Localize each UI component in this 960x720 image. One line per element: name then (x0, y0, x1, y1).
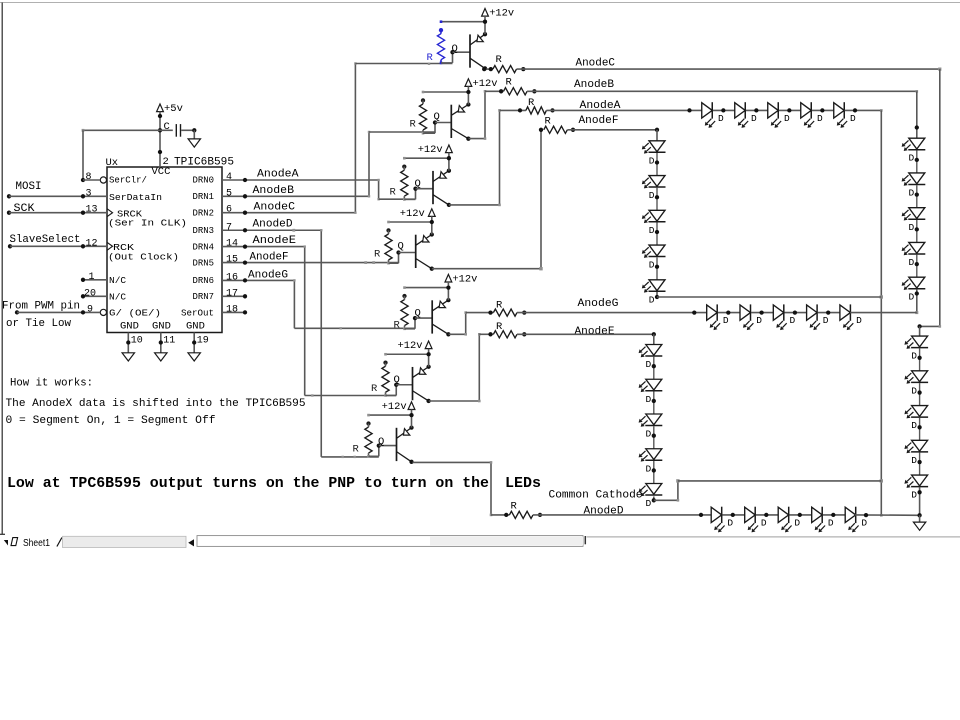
wire AnodeC net vertical riser (354, 62, 356, 214)
scrollbar left arrow (188, 539, 194, 546)
svg-text:AnodeB: AnodeB (574, 79, 614, 91)
IC U1 pin label SerOut (181, 308, 214, 319)
LED DD4 (812, 507, 834, 533)
pin number 20 (84, 288, 96, 299)
wire GND pin 11 stub (159, 333, 163, 353)
svg-text:D: D (646, 463, 652, 474)
wire between DG4 and DG5 (818, 310, 840, 314)
svg-text:Ux: Ux (106, 157, 119, 169)
svg-text:0 = Segment On, 1 = Segment Of: 0 = Segment On, 1 = Segment Off (6, 415, 216, 427)
svg-text:AnodeF: AnodeF (250, 252, 289, 264)
svg-text:AnodeA: AnodeA (257, 169, 299, 181)
LED DC3 (904, 406, 928, 432)
LED DF3 (642, 210, 666, 236)
svg-text:D: D (790, 315, 796, 326)
ground (pin 10) (122, 353, 134, 361)
wire N/C pin 1 stub (81, 278, 107, 282)
label AnodeB (net at pin 5) (253, 185, 295, 197)
wire VCC rail to SerClr pin 8 (81, 129, 160, 182)
svg-text:18: 18 (226, 304, 238, 315)
wire base feed jog (Q1) (441, 50, 470, 63)
svg-text:AnodeF: AnodeF (579, 115, 619, 127)
svg-text:DRN6: DRN6 (193, 275, 215, 286)
svg-text:D: D (911, 490, 917, 501)
svg-text:D: D (909, 187, 915, 198)
IC U1 pin label DRN2 (193, 208, 215, 219)
wire DRN0 pin 4 (AnodeA net) (222, 178, 379, 182)
svg-text:AnodeE: AnodeE (575, 326, 615, 338)
node collector (Q6) (426, 399, 430, 403)
IC U1 part value TPIC6B595 (174, 157, 234, 169)
wire AnodeC column bottom to ground node (917, 487, 921, 515)
LED DG5 (840, 304, 862, 330)
svg-text:AnodeE: AnodeE (253, 235, 297, 247)
wire base feed jog (Q7) (369, 443, 397, 456)
LED DE3 (639, 414, 663, 440)
LED DC4 (904, 440, 928, 466)
resistor R (AnodeG segment) (466, 300, 527, 317)
pin number 13 (86, 205, 98, 216)
svg-text:R: R (353, 444, 360, 456)
wire between DD1 and DD2 (722, 513, 744, 517)
wire between DB4 and DB5 (915, 255, 919, 278)
svg-text:D: D (649, 260, 655, 271)
label AnodeG (net at pin 16) (248, 270, 288, 282)
LED DB1 (902, 138, 926, 164)
wire AnodeA row to LED string (546, 108, 701, 112)
svg-text:D: D (911, 385, 917, 396)
svg-text:20: 20 (84, 288, 96, 299)
wire capacitor to ground (181, 128, 196, 138)
resistor R (base of Q2, AnodeB driver) (410, 98, 427, 133)
wire AnodeF row to LED column (567, 128, 659, 132)
svg-text:Q: Q (434, 111, 440, 123)
wire AnodeD string to ground node (855, 513, 922, 518)
label AnodeA (segment row) (580, 100, 621, 112)
LED DD1 (711, 507, 733, 533)
transistor Q5 PNP (AnodeG driver) (415, 300, 449, 334)
wire +12v stub (Q6) (428, 349, 430, 355)
node collector (Q5) (446, 332, 450, 336)
svg-text:+12v: +12v (382, 401, 407, 413)
node collector (Q2) (466, 137, 470, 141)
label AnodeB (segment row) (574, 79, 614, 91)
IC U1 pin label SerDataIn (109, 192, 162, 203)
wire AnodeA string to common vertical (845, 108, 883, 112)
node AnodeC column top (917, 324, 921, 328)
wire +12v stub (Q3) (448, 153, 450, 159)
svg-text:R: R (496, 300, 503, 312)
text 0 = Segment On, 1 = Segment Off (6, 415, 216, 427)
resistor R (base of Q6, AnodeE driver) (371, 361, 389, 396)
svg-text:D: D (861, 517, 867, 528)
IC U1 inversion bubble pin 9 (100, 309, 106, 315)
wire emitter to +12v (Q1) (483, 20, 487, 37)
svg-text:GND: GND (152, 321, 171, 333)
IC U1 pin label G/ (OE/) (109, 308, 161, 319)
svg-text:AnodeC: AnodeC (576, 58, 616, 70)
IC U1 inversion bubble pin 8 (100, 177, 106, 183)
capacitor C (164, 121, 181, 137)
svg-text:D: D (646, 394, 652, 405)
LED DB4 (902, 242, 926, 268)
wire AnodeF row into column (656, 130, 658, 141)
wire AnodeB net vertical riser (368, 131, 370, 198)
wire AnodeF column bottom to common vertical (657, 296, 881, 298)
IC U1 pin label DRN6 (193, 275, 215, 286)
wire AnodeE row to LED column (517, 332, 656, 336)
svg-text:D: D (911, 455, 917, 466)
svg-text:D: D (751, 113, 757, 124)
LED DA2 (735, 102, 757, 128)
wire Q1 emitter rail (440, 20, 485, 23)
svg-text:15: 15 (226, 255, 238, 266)
wire between DE2 and DE3 (652, 391, 656, 414)
tab bar sheet flag icon (11, 538, 18, 546)
svg-text:D: D (761, 517, 767, 528)
LED DB2 (902, 173, 926, 199)
resistor R (AnodeB segment) (485, 77, 537, 95)
svg-text:12: 12 (86, 238, 98, 249)
+12v power symbol (Q5 driver) (445, 273, 477, 285)
svg-text:Q: Q (415, 308, 421, 320)
svg-text:10: 10 (131, 336, 143, 347)
wire resistor bottom terminal (Q5) (403, 328, 406, 331)
svg-text:D: D (909, 222, 915, 233)
label AnodeC (segment row) (576, 58, 616, 70)
LED DE5 (639, 484, 663, 510)
IC U1 pin label DRN1 (193, 191, 215, 202)
wire AnodeB row (527, 90, 918, 93)
wire between DF4 and DF5 (655, 257, 659, 280)
wire Q7 emitter rail (367, 414, 411, 417)
wire common cathode vertical (right) (880, 110, 883, 516)
LED DB3 (902, 208, 926, 234)
wire between DE4 and DE5 (652, 461, 656, 484)
wire Q4 emitter rail (387, 221, 432, 224)
wire AnodeC row (517, 68, 942, 71)
label AnodeF (segment row) (579, 115, 619, 127)
wire between DD2 and DD3 (756, 513, 778, 517)
svg-text:D: D (649, 225, 655, 236)
IC U1 TPIC6B595 body (107, 167, 222, 333)
svg-text:+5v: +5v (164, 103, 183, 115)
node collector (Q7) (409, 460, 413, 464)
wire Q6 collector to AnodeE row riser (429, 333, 481, 402)
svg-text:D: D (911, 351, 917, 362)
pin number 7 (226, 222, 232, 233)
label SCK (14, 203, 35, 215)
IC U1 pin label N/C (pin 1) (109, 275, 126, 286)
svg-text:MOSI: MOSI (16, 181, 42, 193)
svg-text:Q: Q (378, 436, 384, 448)
svg-text:(Out Clock): (Out Clock) (108, 252, 179, 263)
svg-text:+12v: +12v (400, 208, 425, 220)
IC U1 pin label N/C (pin 20) (109, 292, 126, 303)
wire between DC4 and DC5 (917, 453, 921, 476)
sheet top border (0, 2, 960, 4)
svg-text:3: 3 (86, 188, 92, 199)
IC U1 clock wedge pin 13 (107, 209, 113, 217)
svg-text:D: D (794, 517, 800, 528)
svg-text:R: R (511, 501, 518, 513)
transistor Q6 PNP (AnodeE driver) (394, 367, 429, 401)
svg-text:VCC: VCC (152, 166, 171, 178)
wire DRN6 pin 16 (AnodeG net) (222, 278, 294, 282)
text How it works: (10, 378, 93, 390)
scrollbar end tick (584, 536, 586, 544)
ground (LED return) (913, 522, 925, 530)
svg-text:14: 14 (226, 239, 238, 250)
LED DF2 (642, 176, 666, 202)
svg-text:4: 4 (226, 172, 232, 183)
wire between DE3 and DE4 (652, 426, 656, 449)
IC U1 pin label DRN7 (193, 291, 215, 302)
pin number 8 (86, 172, 92, 183)
pin number 19 (197, 336, 209, 347)
svg-text:13: 13 (86, 205, 98, 216)
svg-text:D: D (909, 292, 915, 303)
svg-text:D: D (727, 517, 733, 528)
svg-text:Sheet1: Sheet1 (23, 538, 50, 549)
wire PWM to G/ OE pin 9 (15, 310, 100, 314)
svg-text:AnodeB: AnodeB (253, 185, 295, 197)
wire DRN2 pin 6 (AnodeC net) (222, 211, 355, 215)
transistor Q7 PNP (AnodeD driver) (378, 428, 412, 462)
LED DF5 (642, 280, 666, 306)
ground (capacitor) (188, 139, 200, 147)
svg-text:D: D (756, 315, 762, 326)
svg-text:R: R (374, 249, 381, 261)
LED DD2 (745, 507, 767, 533)
LED DE2 (639, 379, 663, 405)
pin number 6 (226, 205, 232, 216)
label or Tie Low (6, 318, 71, 330)
wire between DD3 and DD4 (789, 513, 811, 517)
svg-text:DRN4: DRN4 (193, 242, 215, 253)
horizontal scrollbar track (197, 536, 583, 547)
wire Q7 collector to AnodeD row drop (413, 461, 493, 516)
tab strip recessed area (63, 536, 187, 547)
wire between DC2 and DC3 (917, 383, 921, 406)
wire resistor bottom terminal (Q2) (422, 132, 425, 135)
wire Q3 emitter rail (403, 157, 449, 160)
wire emitter to +12v (Q6) (426, 352, 430, 369)
LED DE4 (639, 449, 663, 475)
wire between DE1 and DE2 (652, 357, 656, 380)
IC U1 pin label RCK (113, 242, 134, 253)
LED DC1 (904, 336, 928, 362)
wire AnodeE row into column (653, 334, 655, 344)
svg-text:D: D (911, 420, 917, 431)
svg-text:R: R (496, 54, 503, 66)
resistor R (base of Q7, AnodeD driver) (353, 421, 373, 456)
IC U1 pin label (Ser In CLK) (108, 218, 187, 229)
pin number 16 (226, 272, 238, 283)
wire AnodeB column bottom to AnodeG row end (915, 289, 919, 314)
wire between DA1 and DA2 (713, 108, 735, 112)
svg-text:D: D (649, 190, 655, 201)
svg-text:5: 5 (226, 188, 232, 199)
wire emitter to +12v (Q5) (446, 285, 450, 302)
wire AnodeD net to Q7 base resistor (321, 456, 379, 458)
label Common Cathode (549, 490, 643, 502)
svg-text:6: 6 (226, 205, 232, 216)
svg-text:D: D (828, 517, 834, 528)
svg-text:G/ (OE/): G/ (OE/) (109, 308, 161, 319)
wire AnodeG string to AnodeB column bottom (850, 312, 917, 314)
wire emitter to +12v (Q7) (409, 413, 413, 430)
wire N/C pin 20 stub (81, 294, 107, 298)
LED DG3 (773, 304, 795, 330)
svg-text:GND: GND (186, 321, 205, 333)
label AnodeD (net at pin 7) (253, 219, 293, 231)
svg-text:+12v: +12v (452, 273, 477, 285)
svg-text:9: 9 (87, 304, 93, 315)
wire Q5 collector to AnodeG row riser (449, 311, 467, 335)
label AnodeF (net at pin 15) (250, 252, 289, 264)
wire between DB3 and DB4 (915, 220, 919, 243)
LED DE1 (639, 345, 663, 371)
wire AnodeB row into column (915, 91, 919, 138)
IC U1 reference designator Ux (106, 157, 119, 169)
wire SerOut pin 18 stub (222, 310, 247, 314)
+12v power symbol (Q7 driver) (382, 401, 415, 413)
wire DRN7 pin 17 stub (222, 294, 247, 298)
label AnodeD (segment row) (584, 506, 624, 518)
wire AnodeG row to LED string (517, 310, 707, 314)
svg-text:D: D (856, 315, 862, 326)
wire AnodeB net to Q2 base resistor (369, 131, 435, 133)
resistor R (base of Q1, AnodeC driver) (427, 28, 445, 64)
resistor R (AnodeD segment) (491, 501, 542, 519)
pin number 15 (226, 255, 238, 266)
svg-text:D: D (909, 257, 915, 268)
wire AnodeC into top of cathode column D4 string (920, 325, 942, 328)
+12v power symbol (Q6 driver) (398, 340, 433, 352)
svg-text:D: D (823, 315, 829, 326)
wire base feed jog (Q2) (423, 120, 451, 133)
svg-text:R: R (545, 116, 552, 128)
wire between DD4 and DD5 (823, 513, 845, 517)
wire VCC to capacitor (160, 129, 173, 131)
pin number 18 (226, 304, 238, 315)
svg-text:DRN7: DRN7 (193, 291, 215, 302)
svg-text:D: D (646, 429, 652, 440)
IC U1 VCC pin label (152, 166, 171, 178)
svg-text:SlaveSelect: SlaveSelect (10, 234, 81, 246)
wire SCK to SRCK pin 13 (9, 211, 107, 215)
LED DG4 (807, 304, 829, 330)
LED DC5 (904, 475, 928, 501)
svg-text:C: C (164, 121, 170, 133)
wire AnodeA net to Q3 base resistor (379, 198, 416, 200)
wire SlaveSelect to RCK pin 12 (10, 244, 107, 248)
wire AnodeG net vertical drop (293, 279, 295, 328)
IC U1 clock wedge pin 12 (107, 242, 113, 250)
pin number 9 (87, 304, 93, 315)
pin number 4 (226, 172, 232, 183)
LED DA4 (801, 102, 823, 128)
svg-text:8: 8 (86, 172, 92, 183)
LED DC2 (904, 371, 928, 397)
wire GND pin 10 stub (126, 333, 130, 353)
svg-text:R: R (410, 119, 417, 131)
resistor R (base of Q5, AnodeG driver) (394, 294, 409, 332)
wire between DG2 and DG3 (751, 310, 773, 314)
label AnodeG (segment row) (578, 298, 619, 310)
IC U1 pin label DRN5 (193, 258, 215, 269)
text The AnodeX data is shifted into the TPIC6B595 (6, 398, 306, 410)
wire AnodeE column bottom to common cathode rail (654, 479, 680, 501)
svg-text:R: R (371, 383, 378, 395)
wire resistor bottom terminal (Q7) (367, 455, 370, 458)
wire AnodeE column bottom (652, 497, 656, 503)
svg-text:SerOut: SerOut (181, 308, 214, 319)
svg-text:AnodeG: AnodeG (248, 270, 288, 282)
svg-text:1: 1 (89, 272, 95, 283)
svg-text:AnodeC: AnodeC (254, 202, 296, 214)
wire base feed jog (Q5) (405, 316, 433, 329)
svg-text:Q: Q (394, 374, 400, 386)
svg-text:D: D (646, 359, 652, 370)
wire Q2 collector to AnodeB row riser (469, 90, 487, 140)
svg-text:or Tie Low: or Tie Low (6, 318, 71, 330)
wire ground stub (common) (919, 515, 921, 522)
wire DRN3 pin 7 (AnodeD net) (222, 228, 321, 232)
label AnodeE (net at pin 14) (253, 235, 297, 247)
svg-text:Q: Q (398, 241, 404, 253)
svg-text:LEDs: LEDs (505, 476, 541, 492)
text LEDs (505, 476, 541, 492)
pin number 5 (226, 188, 232, 199)
wire AnodeG net to Q5 base resistor (294, 327, 415, 329)
transistor Q4 PNP (AnodeF driver) (398, 235, 432, 269)
label AnodeE (segment row) (575, 326, 615, 338)
node collector (Q4) (430, 267, 434, 271)
wire +12v stub (Q4) (431, 216, 433, 222)
resistor R (AnodeC segment, in collector line of Q1) (482, 54, 525, 73)
pin number 12 (86, 238, 98, 249)
node VCC junction (158, 128, 162, 132)
svg-text:AnodeG: AnodeG (578, 298, 619, 310)
label MOSI (16, 181, 42, 193)
svg-text:N/C: N/C (109, 275, 126, 286)
wire between DF2 and DF3 (655, 188, 659, 211)
wire Q3 collector to AnodeA row riser (449, 109, 501, 206)
wire AnodeE net vertical drop (304, 245, 306, 395)
LED DD5 (845, 507, 867, 533)
wire between DG1 and DG2 (718, 310, 740, 314)
svg-text:11: 11 (163, 336, 175, 347)
wire DRN1 pin 5 (AnodeB net) (222, 194, 369, 198)
svg-text:Low at TPC6B595 output turns o: Low at TPC6B595 output turns on the PNP … (7, 476, 489, 492)
wire GND pin 19 stub (192, 333, 196, 353)
wire emitter to +12v (Q4) (430, 220, 434, 237)
wire resistor bottom terminal (Q3) (403, 198, 406, 201)
wire between DB1 and DB2 (915, 150, 919, 173)
svg-text:D: D (718, 113, 724, 124)
resistor R (base of Q3, AnodeA driver) (390, 164, 408, 199)
IC U1 pin label (Out Clock) (108, 252, 179, 263)
LED DF1 (642, 141, 666, 167)
svg-text:N/C: N/C (109, 292, 126, 303)
LED DA1 (702, 102, 724, 128)
svg-text:(Ser In CLK): (Ser In CLK) (108, 218, 187, 229)
svg-text:+12v: +12v (473, 78, 498, 90)
wire +12v stub (Q7) (411, 410, 413, 416)
IC U1 GND pin labels (120, 321, 205, 333)
